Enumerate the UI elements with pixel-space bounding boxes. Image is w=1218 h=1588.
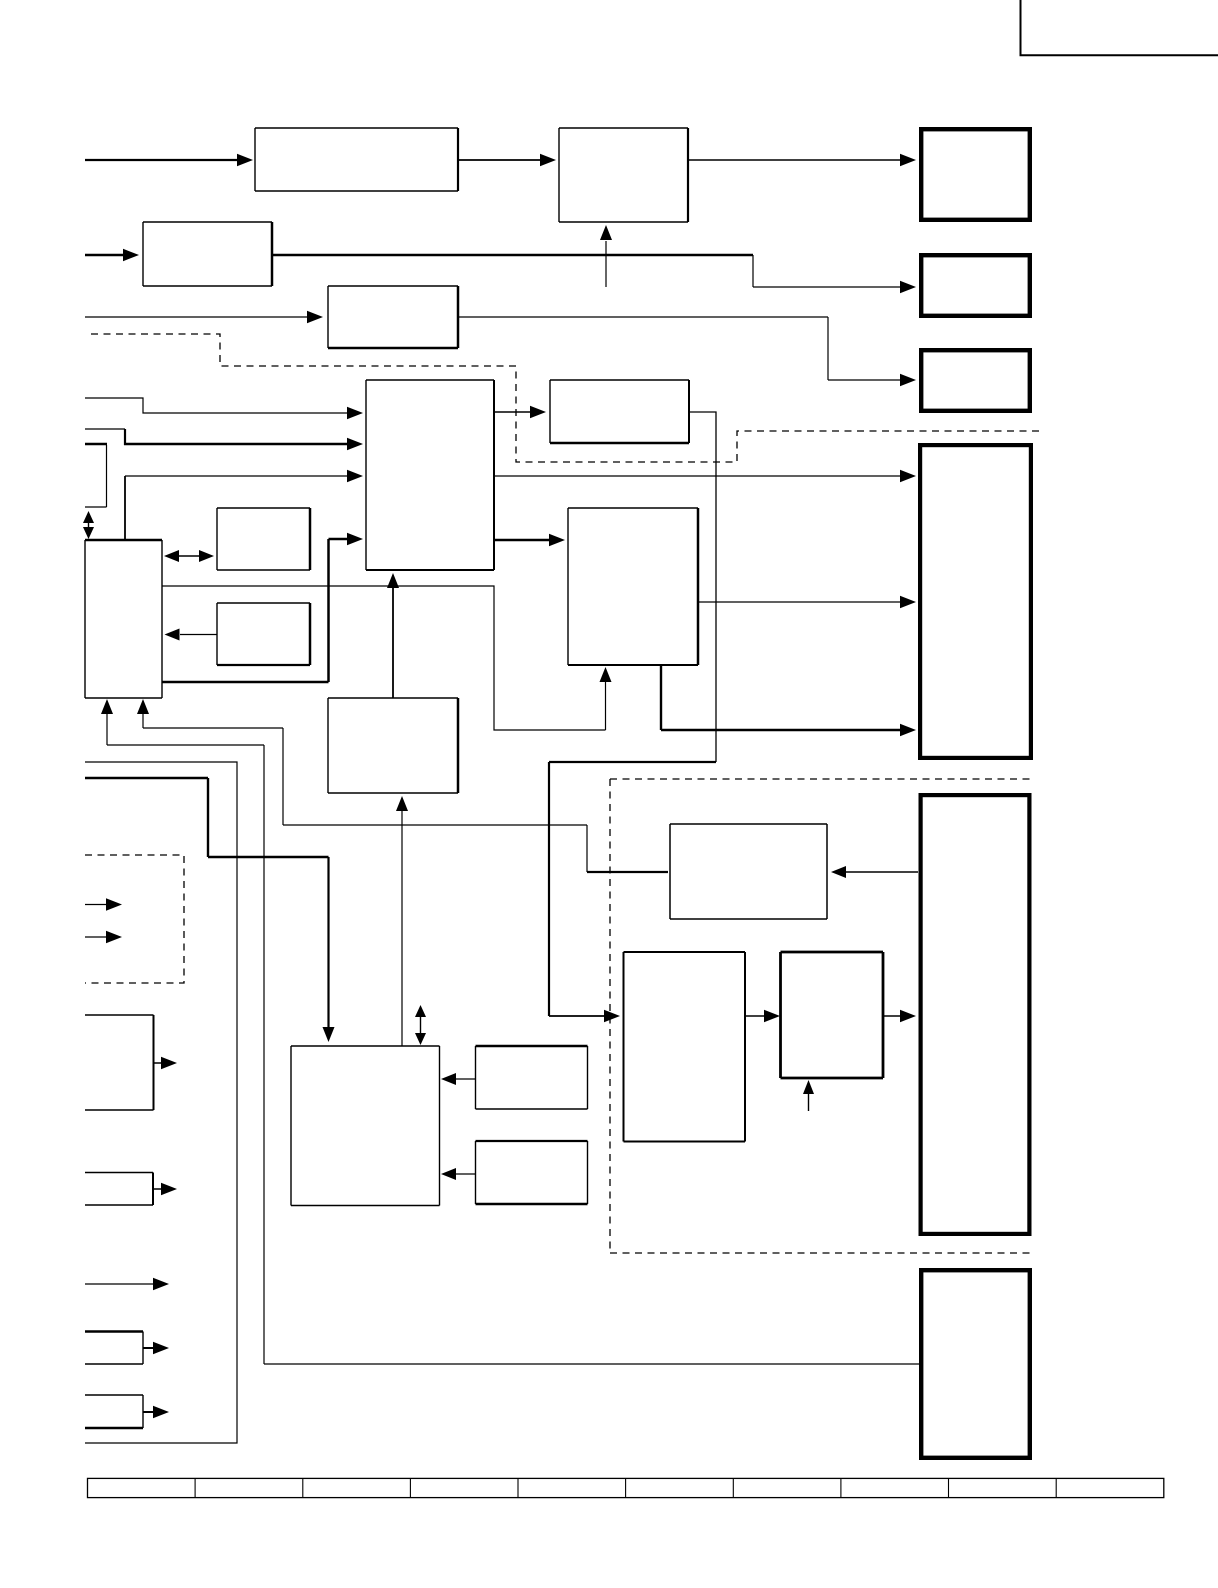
wire: thick path box L area to main IC (y=539) (162, 681, 329, 684)
wire: block17 output stub (143, 1411, 156, 1413)
wire: block3 output stepping down to connector C (458, 316, 828, 318)
connector A (right column) (921, 129, 1030, 220)
wire: block5b routing down-left-down into block 12 (689, 412, 716, 762)
wire: block10 output stub (153, 1188, 164, 1190)
wire: dashed control path upper (91, 334, 1040, 462)
block B8 (bottom center) (291, 1046, 440, 1206)
wire: block13 to connector E (883, 1015, 904, 1017)
node: page corner frame (top right) (1021, 0, 1218, 55)
connector B (right column) (921, 255, 1030, 316)
wire: main IC to block 5b (y=412) (494, 411, 533, 413)
node: dashed enclosure (bottom right) (610, 778, 1030, 780)
wire: box L to main IC input (y=476) (124, 476, 126, 540)
connector F (right column) (921, 1270, 1030, 1458)
block B12 (in dashed enclosure) (624, 952, 746, 1142)
wire: long line box L to center block bottom (via y=586) (162, 586, 606, 730)
wire: input line to block 3 (y=317) (85, 316, 310, 318)
wire: block12 to block13 (745, 1015, 767, 1017)
wire: center block to connector D (y=602) (698, 601, 904, 603)
wire: main IC thick output to center block (y=540) (494, 539, 551, 542)
block B3 (third row) (328, 286, 458, 348)
block B10 (left edge) (85, 1173, 153, 1206)
block B16 (left edge) (85, 1332, 143, 1365)
wire: return path into box L bottom (via x=264 down to y=1364) (106, 712, 108, 745)
node: bidirectional arrow above block8 (420, 1017, 422, 1034)
block B5 (top row, second) (559, 128, 688, 222)
block M1 (peripheral) (217, 508, 310, 570)
wire: branch up into block7 bottom and down to block8 top (401, 810, 403, 1046)
wire: return path into box L bottom (via x=283, y=825) (142, 712, 144, 728)
wire: input line to block 2 (y=255) (85, 254, 126, 257)
connector D (right column) (920, 445, 1031, 758)
wire: thick path to block8 top (y=778, x=208) (85, 777, 208, 779)
wire: left stub to main IC thick input (y=444) (85, 428, 125, 430)
node: dashed port group box (left) (85, 855, 184, 983)
wire: main IC to connector D (y=476) (494, 475, 904, 477)
block B11 (in dashed enclosure) (670, 824, 827, 919)
wire: short input arrow 2 in dashed port group (85, 936, 108, 938)
wire: box L to peripheral M1 bidirectional (167, 555, 211, 557)
wire: block9 output stub (154, 1062, 165, 1064)
node: revision table bar (bottom) (88, 1478, 1164, 1497)
wire: center block bottom to connector D (y=730) (660, 665, 662, 730)
node: bidirectional port arrow (left edge) (88, 523, 90, 528)
wire: block7 up into main IC bottom (392, 587, 394, 698)
wire: block16 output stub (143, 1347, 156, 1349)
wire: block1 to block5 (y=160) (458, 159, 543, 161)
wire: block2 output stepping down to connector B (272, 254, 753, 257)
block L (left interface) (85, 540, 162, 698)
block M2 (peripheral) (217, 603, 310, 665)
wire: free input arrow (y=1284) (85, 1283, 155, 1285)
block B14 (right of B8) (476, 1046, 588, 1109)
wire: peripheral M2 to box L (180, 634, 217, 636)
block U2 (center processor) (568, 508, 698, 665)
wire: left edge bracket stub (85, 443, 107, 446)
wire: input line to signal block 1 (y=160) (85, 159, 240, 161)
connector E (right column) (921, 795, 1030, 1234)
block B13 (in dashed enclosure) (781, 952, 884, 1078)
wire: connector E to block 11 (845, 871, 918, 873)
block B1 (top row, first) (255, 128, 458, 191)
wire: block15 to block8 (456, 1173, 476, 1175)
block B2 (second row) (143, 222, 272, 286)
wire: block5 output to connector A (y=160) (688, 159, 904, 161)
block B7 (below main IC) (328, 698, 458, 793)
wire: block14 to block8 (456, 1078, 476, 1080)
wire: left stub to main IC top input (y=413) (85, 398, 350, 413)
connector C (right column) (921, 350, 1030, 411)
block B15 (right of B8) (476, 1141, 588, 1204)
wire: dangling up arrow into block5 bottom (605, 241, 607, 287)
wire: up arrow into block13 bottom (808, 1092, 810, 1111)
wire: thin loop left edge down (y=762 to y=1443) (85, 762, 237, 1443)
wire: short input arrow 1 in dashed port group (85, 904, 108, 906)
block B9 (left edge) (85, 1015, 154, 1110)
block B5b (right of main IC) (550, 380, 689, 443)
block U1 main IC (center) (366, 380, 494, 570)
block B17 (left edge) (85, 1395, 143, 1428)
